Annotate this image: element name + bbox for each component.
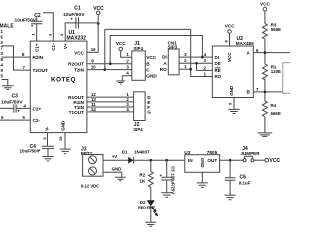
svg-text:GND: GND (146, 74, 157, 79)
svg-text:0.1uF: 0.1uF (239, 180, 251, 185)
svg-text:+: + (70, 16, 73, 21)
svg-text:T2IN: T2IN (74, 67, 85, 72)
svg-text:D1: D1 (122, 150, 128, 155)
svg-text:10: 10 (91, 64, 96, 69)
svg-text:1N4007: 1N4007 (134, 150, 150, 155)
svg-text:C2+: C2+ (33, 106, 42, 111)
svg-text:VCC: VCC (260, 1, 271, 6)
svg-text:IN: IN (188, 158, 193, 163)
svg-text:C3: C3 (12, 94, 19, 100)
svg-text:OUT: OUT (207, 158, 217, 163)
svg-text:JUMPER: JUMPER (240, 151, 260, 156)
svg-text:+: + (17, 109, 20, 114)
svg-text:GND: GND (60, 120, 65, 131)
svg-text:566E: 566E (271, 27, 281, 32)
svg-text:+: + (31, 24, 34, 29)
svg-text:SIP4: SIP4 (133, 127, 143, 132)
svg-text:VCC: VCC (146, 55, 157, 60)
svg-text:15: 15 (58, 136, 63, 141)
svg-text:GND: GND (200, 158, 205, 168)
svg-text:10uF/50V: 10uF/50V (63, 12, 85, 18)
svg-text:C1-: C1- (51, 43, 56, 51)
svg-text:RO: RO (215, 74, 222, 79)
svg-text:V+: V+ (63, 43, 68, 49)
svg-text:+: + (160, 173, 163, 178)
svg-text:7805: 7805 (207, 150, 218, 156)
svg-text:T2OUT: T2OUT (33, 68, 49, 73)
svg-text:V-: V- (44, 126, 49, 131)
svg-text:C1+: C1+ (34, 43, 39, 52)
svg-text:VCC: VCC (227, 52, 232, 62)
svg-text:T1OUT: T1OUT (69, 110, 85, 115)
svg-text:U3: U3 (184, 150, 190, 156)
svg-text:566E: 566E (271, 111, 281, 116)
svg-text:G: G (147, 110, 151, 115)
svg-text:10uF/50V: 10uF/50V (1, 100, 23, 106)
svg-text:RE: RE (215, 68, 221, 73)
svg-text:RED LED: RED LED (138, 206, 155, 210)
svg-text:R2IN: R2IN (33, 55, 44, 60)
svg-text:C5: C5 (170, 166, 175, 172)
svg-text:DE: DE (215, 61, 221, 66)
svg-text:B: B (146, 61, 150, 66)
svg-text:R2OUT: R2OUT (68, 62, 84, 67)
svg-text:+V: +V (112, 154, 118, 159)
svg-text:SIP3: SIP3 (168, 45, 178, 50)
svg-text:9-12 VDC: 9-12 VDC (81, 184, 99, 189)
svg-text:VCC: VCC (225, 24, 236, 29)
svg-text:C2-: C2- (33, 118, 41, 123)
svg-text:GND: GND (229, 85, 234, 96)
svg-text:1K: 1K (139, 178, 146, 183)
svg-text:14: 14 (91, 107, 96, 112)
svg-text:C: C (146, 68, 150, 73)
svg-text:KOTEQ: KOTEQ (51, 76, 76, 83)
svg-text:DI: DI (162, 55, 167, 60)
svg-text:MAX485: MAX485 (236, 41, 254, 46)
svg-text:VCC: VCC (74, 50, 85, 55)
svg-text:R4: R4 (271, 103, 277, 108)
svg-text:C1: C1 (74, 5, 81, 11)
svg-text:D2: D2 (140, 200, 146, 205)
svg-text:SIP4: SIP4 (133, 46, 143, 51)
svg-text:DI: DI (215, 55, 220, 60)
svg-text:R2: R2 (139, 172, 145, 177)
svg-text:16: 16 (91, 47, 96, 52)
svg-text:120E: 120E (271, 69, 281, 74)
svg-text:VCC: VCC (269, 158, 280, 164)
svg-text:+: + (38, 148, 41, 153)
svg-text:A: A (163, 61, 167, 66)
svg-text:VCC: VCC (116, 41, 127, 46)
svg-text:GND: GND (112, 167, 122, 172)
svg-text:MAX232: MAX232 (67, 36, 87, 42)
svg-text:100uF/25V: 100uF/25V (170, 173, 175, 194)
svg-text:RO: RO (160, 67, 167, 72)
